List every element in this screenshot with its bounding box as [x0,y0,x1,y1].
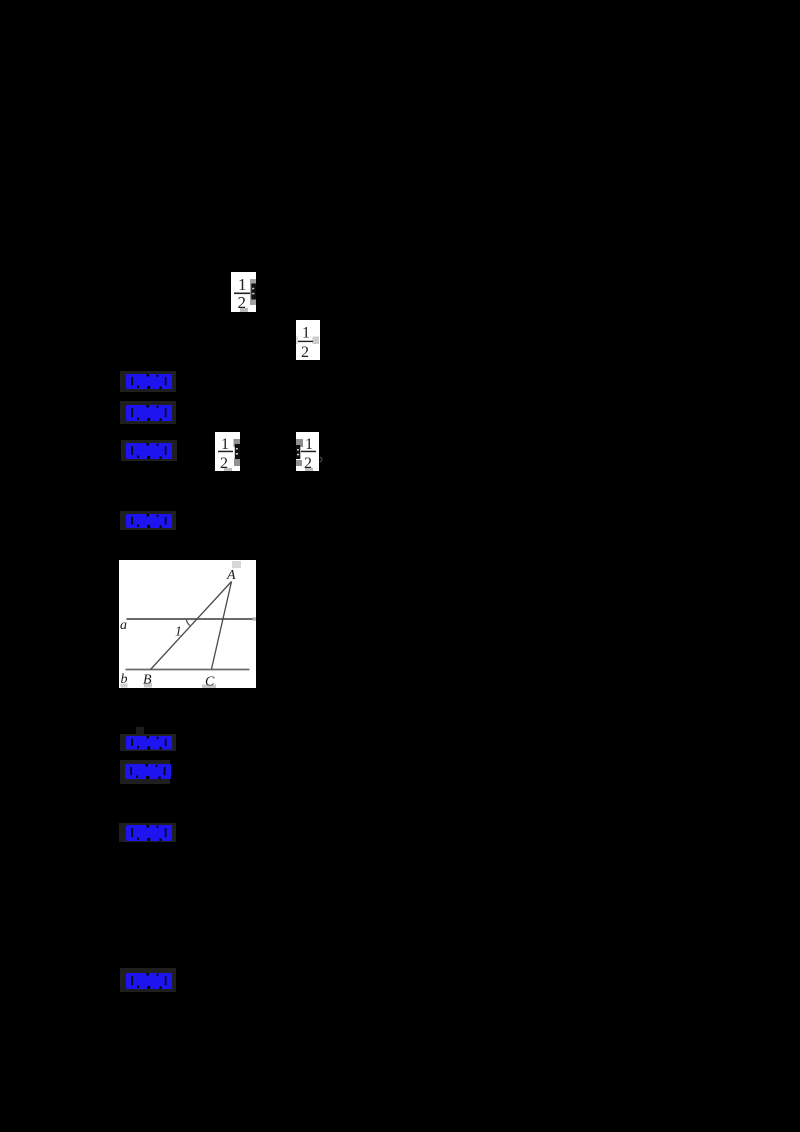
geometry figure [119,560,256,688]
fraction image 4 (1/2) [296,432,319,471]
blue label [kaodian] 5 [136,727,144,735]
gray artifact above A [232,561,241,568]
fraction image 1 (1/2) [231,272,256,312]
gray artifact below b label [121,684,128,688]
segment AC [212,582,232,670]
fraction image 2 (1/2) [296,320,320,360]
svg-text:A: A [226,568,236,583]
faint comma after fraction 4 [319,450,323,457]
blue label [dianping] 4 [120,511,176,530]
svg-text:2: 2 [301,344,309,360]
blue label [dianping] 8 [120,968,176,992]
svg-text:C: C [205,675,215,689]
segment AB [151,582,232,670]
svg-text:1: 1 [302,325,310,342]
gray artifact below C label [202,685,216,689]
blue label [jieda] 7 [119,823,176,842]
blue label [fenxi] 2 [120,401,176,424]
svg-text:2: 2 [304,455,312,471]
svg-text:1: 1 [221,436,229,453]
blue label [jieda] 3 [121,440,177,461]
blue label [kaodian] 1 [120,371,176,392]
svg-text:1: 1 [238,275,247,294]
svg-text:B: B [143,673,152,688]
svg-text:b: b [121,672,128,687]
blue label [fenxi] 6 [120,760,170,784]
fraction image 3 (1/2) [215,432,240,471]
svg-text:2: 2 [220,455,228,471]
svg-text:1: 1 [305,436,313,453]
angle 1 arc [186,619,190,625]
gray artifact below B label [144,683,152,688]
svg-text:2: 2 [238,293,247,312]
line b [126,669,250,671]
svg-text:1: 1 [175,624,182,639]
line a [127,618,255,620]
svg-text:a: a [120,618,127,633]
